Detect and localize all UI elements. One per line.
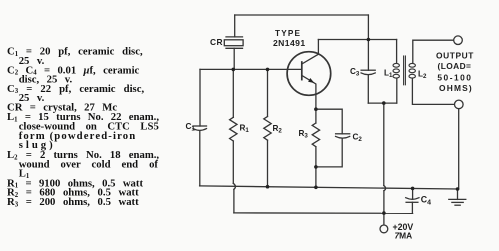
- svg-text:L2: L2: [418, 69, 427, 80]
- svg-text:wound over cold end of: wound over cold end of: [19, 159, 159, 171]
- svg-text:R1: R1: [240, 124, 250, 135]
- svg-text:C4: C4: [421, 195, 431, 207]
- svg-text:R2: R2: [273, 124, 283, 135]
- svg-text:C1: C1: [186, 122, 196, 133]
- svg-text:2N1491: 2N1491: [273, 38, 306, 48]
- svg-text:R3: R3: [299, 129, 309, 140]
- svg-text:L1: L1: [384, 68, 393, 79]
- svg-text:CR: CR: [210, 37, 223, 47]
- svg-text:50-100: 50-100: [437, 73, 472, 83]
- svg-text:(LOAD=: (LOAD=: [438, 61, 472, 71]
- svg-text:R3 = 200 ohms, 0.5 watt: R3 = 200 ohms, 0.5 watt: [7, 196, 139, 208]
- svg-text:7MA: 7MA: [395, 230, 413, 240]
- svg-text:C3: C3: [350, 67, 360, 78]
- svg-text:TYPE: TYPE: [275, 29, 301, 38]
- svg-text:OHMS): OHMS): [439, 83, 473, 93]
- svg-text:OUTPUT: OUTPUT: [436, 50, 474, 60]
- svg-text:C2: C2: [353, 132, 363, 143]
